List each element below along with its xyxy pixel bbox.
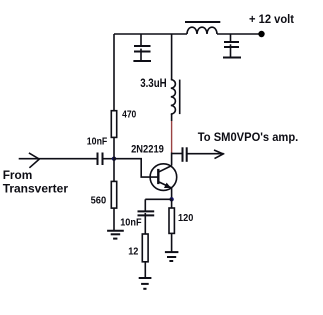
resistor R2 560 ohm — [111, 181, 116, 208]
label 3.3uH — [140, 78, 167, 90]
resistor R3 120 ohm — [169, 208, 174, 233]
core bar of L1 — [185, 21, 220, 23]
wire L2 bottom short black lead — [171, 114, 173, 121]
wire top rail left segment — [114, 33, 187, 35]
wire R2 to ground — [113, 208, 115, 231]
wire top rail right segment — [217, 33, 259, 35]
wire red collector feed segment — [171, 121, 173, 153]
input arrow head — [29, 153, 39, 168]
svg-text:12: 12 — [128, 245, 138, 257]
svg-text:2N2219: 2N2219 — [131, 143, 164, 155]
wire down to C5 — [144, 199, 146, 211]
svg-text:From: From — [3, 168, 33, 182]
output arrow head — [214, 150, 223, 159]
label 10nF emitter — [120, 217, 142, 229]
ground bar under C2 — [133, 60, 151, 62]
wire R1 to node — [113, 137, 115, 158]
svg-text:10nF: 10nF — [87, 136, 108, 148]
label 470 — [122, 109, 136, 121]
label 2N2219 — [131, 143, 164, 155]
wire node down to R2 — [113, 159, 115, 182]
inductor L1 RF choke on supply rail — [187, 27, 217, 34]
node emitter junction dot — [169, 197, 173, 201]
ground G2 under R4 — [139, 278, 152, 289]
label To SM0VPO's amp. — [198, 130, 298, 144]
wire R3 to ground — [171, 233, 173, 252]
capacitor C5 emitter bypass 10nF — [138, 211, 155, 234]
capacitor C4 at +12V terminal — [224, 34, 239, 58]
wire collector node vertical into transistor — [171, 153, 173, 166]
svg-text:3.3uH: 3.3uH — [140, 78, 167, 90]
wire left branch vertical from rail to R1 — [113, 34, 115, 111]
svg-text:Transverter: Transverter — [3, 182, 69, 196]
wire R4 to ground — [144, 262, 146, 278]
core bar of L2 — [179, 80, 181, 115]
transistor Q1 2N2219 — [150, 164, 177, 191]
ground bar under C4 — [223, 57, 241, 59]
resistor R4 12 ohm — [142, 234, 148, 262]
label +12 volt — [249, 12, 294, 26]
wire emitter node down to R3 — [171, 199, 173, 208]
svg-text:470: 470 — [122, 109, 136, 121]
wire emitter vertical to node — [171, 188, 173, 199]
label 560 — [91, 194, 107, 206]
svg-text:560: 560 — [91, 194, 107, 206]
ground G3 under R3 — [165, 252, 179, 261]
svg-text:+ 12 volt: + 12 volt — [249, 12, 294, 26]
inductor L2 3.3uH collector choke — [171, 80, 176, 115]
label 12 — [128, 245, 138, 257]
svg-text:10nF: 10nF — [120, 217, 142, 229]
wire from rail down to L2 — [171, 34, 173, 80]
svg-text:120: 120 — [178, 212, 193, 224]
label From — [3, 168, 33, 182]
resistor R1 470 ohm — [111, 111, 116, 138]
wire emitter node left to bypass branch — [145, 198, 171, 200]
label 120 — [178, 212, 193, 224]
ground G1 under R2 — [107, 231, 124, 239]
label 10nF input — [87, 136, 108, 148]
wire collector node to output cap — [172, 153, 183, 155]
capacitor C2 10n decoupling at rail — [134, 34, 151, 61]
capacitor C3 output coupling — [183, 147, 187, 162]
label Transverter — [3, 182, 69, 196]
wire base routing from node to transistor — [114, 159, 158, 177]
node base divider junction dot — [112, 157, 116, 161]
capacitor C1 input coupling 10nF — [98, 153, 103, 166]
svg-text:To SM0VPO's amp.: To SM0VPO's amp. — [198, 130, 298, 144]
node +12V supply terminal dot — [258, 31, 264, 37]
wire input line — [19, 158, 98, 160]
wire output to arrow — [187, 153, 224, 155]
wire C1 to base node — [103, 158, 115, 160]
